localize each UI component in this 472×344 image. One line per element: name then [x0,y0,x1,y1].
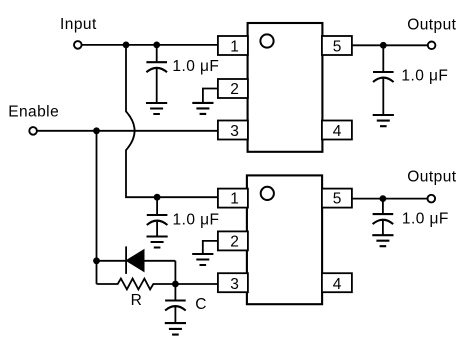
svg-text:1.0 μF: 1.0 μF [172,58,219,75]
svg-text:1.0 μF: 1.0 μF [401,67,448,84]
svg-text:C: C [195,296,207,313]
svg-text:2: 2 [230,234,239,251]
svg-text:5: 5 [333,39,342,56]
svg-text:1.0 μF: 1.0 μF [173,211,220,228]
svg-text:4: 4 [333,276,342,293]
svg-text:1: 1 [230,39,239,56]
svg-text:1: 1 [230,190,239,207]
svg-text:4: 4 [333,123,342,140]
svg-text:1.0 μF: 1.0 μF [402,210,449,227]
svg-text:5: 5 [333,190,342,207]
svg-text:Output: Output [407,17,456,34]
svg-text:R: R [131,292,143,309]
svg-text:3: 3 [230,276,239,293]
svg-text:Input: Input [60,16,97,33]
svg-text:3: 3 [230,123,239,140]
svg-text:Output: Output [407,169,456,186]
svg-text:2: 2 [230,81,239,98]
svg-text:Enable: Enable [8,103,59,120]
